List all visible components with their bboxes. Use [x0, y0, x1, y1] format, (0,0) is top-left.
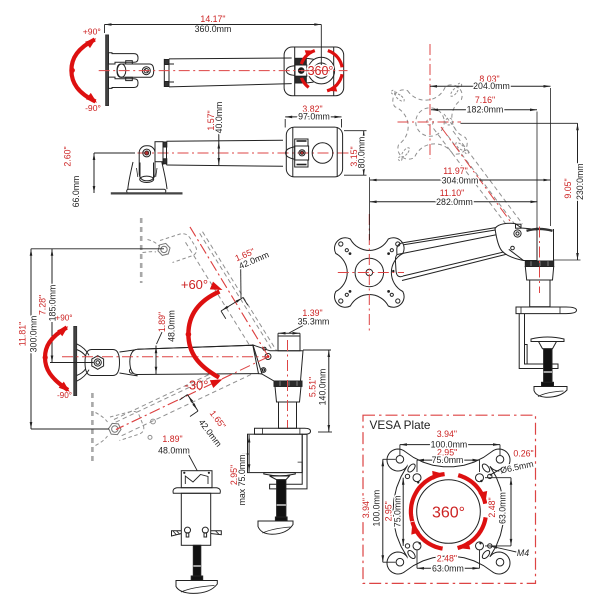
view2 centerline	[98, 152, 355, 154]
blview ghost upper hex bolt	[158, 243, 170, 255]
rightview dim 204mm	[550, 88, 552, 226]
vesa detail inner holes 75/63 pattern	[413, 474, 421, 482]
rightview arm left cap at plate	[397, 243, 404, 255]
view1 dimension 360mm	[104, 25, 106, 34]
svg-text:M4: M4	[517, 548, 529, 558]
view1 centerline	[99, 70, 348, 72]
blview dim 300mm	[31, 428, 109, 430]
view2 arm bullet tip	[286, 147, 295, 159]
rightview dashed arm end bracket	[446, 118, 453, 125]
view1 pivot screw black	[298, 68, 304, 74]
blview ghost upper bracket	[148, 240, 160, 247]
rightview solid arm upper link	[404, 227, 498, 242]
blview ghost arm lower centerline	[116, 357, 268, 430]
svg-text:63.0mm: 63.0mm	[498, 492, 508, 524]
vesa detail center circle	[417, 480, 481, 544]
svg-text:75.0mm: 75.0mm	[392, 495, 402, 527]
blview elbow head	[253, 345, 303, 381]
view1 clamp jaws	[295, 58, 306, 65]
rightview clamp screw	[544, 349, 552, 383]
svg-text:7.16": 7.16"	[475, 95, 495, 105]
svg-text:3.94": 3.94"	[437, 429, 457, 439]
svg-text:48.0mm: 48.0mm	[158, 446, 190, 456]
blview head cap	[278, 336, 300, 351]
blview pole mid block	[275, 386, 301, 402]
blview dim 42mm lower ghost arm	[188, 395, 199, 412]
svg-text:230.0mm: 230.0mm	[575, 163, 585, 200]
rightview dim 230mm	[461, 122, 578, 124]
vesa detail rotation arcs 360	[411, 474, 445, 521]
clamp detail top plate	[255, 428, 311, 434]
blview dim 140mm	[303, 349, 331, 351]
view2 dim 66mm	[94, 152, 135, 154]
clamp detail spine	[270, 434, 307, 489]
svg-text:3.94": 3.94"	[361, 498, 371, 518]
view2 pivot screw red	[299, 150, 305, 156]
vesa detail dim 75mm left	[402, 478, 404, 546]
grommet nut	[191, 576, 203, 580]
view2 connector block	[155, 142, 163, 162]
grommet bowl	[176, 581, 217, 594]
rightview desk clamp top plate	[516, 307, 577, 314]
rightview clamp knob bowl	[534, 387, 567, 398]
svg-text:360°: 360°	[432, 505, 465, 522]
clamp detail nut	[275, 517, 287, 521]
view2 dim 80mm	[344, 130, 367, 132]
rightview clamp screw nut	[542, 382, 554, 386]
clamp detail bowl	[258, 521, 293, 534]
rightview clamp C bracket	[519, 314, 558, 369]
view2 clamp jaws	[295, 139, 308, 146]
svg-text:1.89": 1.89"	[157, 312, 167, 332]
blview wall bracket horns	[77, 344, 89, 356]
svg-text:80.0mm: 80.0mm	[357, 137, 367, 169]
blview dim 35.3mm cap	[278, 332, 300, 334]
view1 pivot screw	[142, 67, 150, 75]
view1 arm bullet tip	[286, 66, 295, 76]
rightview dashed arm centerline	[441, 127, 517, 231]
rightview dashed VESA plate raised position	[391, 83, 469, 161]
svg-text:2.48": 2.48"	[487, 497, 497, 517]
blview dim 185mm	[31, 248, 164, 250]
view2 monitor plate square	[286, 127, 342, 177]
blview arm centerline red	[62, 356, 268, 358]
view1 arm tube	[169, 57, 292, 60]
grommet screw	[193, 545, 201, 576]
blview main beam	[130, 345, 259, 374]
svg-text:2.60": 2.60"	[63, 146, 73, 166]
svg-text:1.89": 1.89"	[162, 434, 182, 444]
rightview solid VESA plate	[335, 238, 405, 308]
rightview pole mid block	[525, 267, 553, 281]
rightview solid arm main beam	[397, 234, 500, 255]
rightview dim 304mm	[369, 177, 371, 240]
grommet flange disc	[173, 488, 220, 494]
svg-text:48.0mm: 48.0mm	[167, 310, 177, 342]
vesa detail border box	[363, 415, 536, 583]
view2 dim 40mm	[218, 130, 220, 165]
svg-text:360.0mm: 360.0mm	[195, 24, 232, 34]
rightview dashed plate crosshair	[429, 44, 431, 159]
grommet side tabs	[172, 531, 182, 536]
view1 knob neck	[306, 57, 313, 60]
blview ghost lower bracket	[96, 413, 108, 423]
view2 base foot	[127, 189, 166, 193]
view2 knob circle	[312, 143, 333, 164]
rightview dim 282mm	[370, 201, 538, 203]
clamp detail body block	[248, 434, 303, 472]
view1 arm end cap	[163, 59, 165, 87]
blview wall plate	[74, 327, 77, 396]
svg-text:63.0mm: 63.0mm	[432, 564, 464, 574]
view2 pivot screw red	[143, 149, 151, 157]
svg-text:+90°: +90°	[55, 314, 72, 323]
view2 ground line	[111, 192, 183, 194]
blview dim 42mm upper ghost arm	[221, 298, 243, 312]
blview forearm link	[120, 350, 138, 376]
blview ghost lower hex bolt	[109, 423, 121, 434]
svg-text:2.48": 2.48"	[437, 554, 457, 564]
view1 top view wall plate	[106, 35, 109, 106]
vesa detail dim 100mm left	[383, 458, 396, 460]
blview pole	[279, 402, 297, 428]
view2 arm tube	[167, 140, 284, 141]
svg-text:75.0mm: 75.0mm	[432, 455, 464, 465]
rightview dashed arm raised	[434, 129, 506, 224]
svg-text:97.0mm: 97.0mm	[298, 112, 330, 122]
svg-text:35.3mm: 35.3mm	[298, 316, 330, 326]
view1 knob circle	[308, 57, 335, 84]
clamp detail screw	[277, 480, 286, 517]
clamp detail pad disc	[264, 473, 296, 476]
rightview solid plate crosshair	[368, 214, 370, 331]
svg-text:0.26": 0.26"	[513, 449, 533, 459]
rightview dim 182mm	[536, 112, 538, 227]
view2 dim 97mm	[284, 119, 286, 128]
svg-text:-90°: -90°	[57, 391, 72, 400]
vesa detail dim 63mm bottom	[416, 550, 418, 568]
svg-text:9.05": 9.05"	[563, 178, 573, 198]
svg-text:-30°: -30°	[185, 378, 209, 393]
blview ghost arm raised 60	[186, 242, 260, 361]
vesa detail lobe holes	[396, 456, 404, 464]
view2 arm left cap	[162, 142, 164, 165]
svg-text:66.0mm: 66.0mm	[71, 176, 81, 208]
view1 swivel arc +90/-90	[71, 40, 95, 102]
svg-text:14.17": 14.17"	[200, 14, 225, 24]
svg-text:+60°: +60°	[181, 277, 208, 292]
blview ghost lower wall plate dashed	[91, 393, 94, 462]
svg-text:7.28": 7.28"	[37, 295, 47, 315]
blview ghost arm lower -30	[119, 365, 272, 438]
blview pole centerline	[287, 340, 289, 428]
blview ghost lower arm pivot circles	[151, 419, 156, 424]
svg-text:300.0mm: 300.0mm	[28, 316, 38, 353]
svg-text:5.51": 5.51"	[307, 377, 317, 397]
view1 clevis ridge ticks	[126, 61, 133, 64]
blview ghost upper wall plate dashed	[140, 218, 143, 283]
grommet keyhole slots	[185, 527, 191, 533]
blview collar dark band	[274, 381, 302, 386]
view1 monitor plate rounded square	[284, 47, 344, 96]
svg-text:282.0mm: 282.0mm	[436, 197, 473, 207]
svg-text:100.0mm: 100.0mm	[372, 490, 382, 527]
vesa detail small holes	[488, 474, 492, 478]
view1 rotation arc 360 top	[301, 51, 315, 65]
view2 base cone	[128, 162, 133, 189]
rightview pole centerline	[539, 227, 541, 294]
vesa detail dim 63mm right	[485, 477, 511, 479]
svg-text:11.81": 11.81"	[18, 322, 28, 346]
blview elbow pivots	[265, 354, 271, 360]
blview ghost arm raised centerline	[190, 227, 268, 356]
svg-text:40.0mm: 40.0mm	[214, 102, 224, 134]
blview swivel arc 90 red	[45, 328, 68, 391]
svg-text:VESA Plate: VESA Plate	[370, 418, 431, 432]
vesa detail slots	[406, 463, 416, 474]
view1 bracket horn bottom	[109, 77, 139, 88]
vesa detail dim 75mm top	[416, 460, 418, 472]
svg-text:182.0mm: 182.0mm	[467, 105, 504, 115]
vesa detail plate outline	[387, 449, 510, 574]
rightview pole collar dark	[525, 261, 553, 267]
blview rotation arc 60-30 red	[188, 292, 219, 378]
svg-text:11.97": 11.97"	[443, 166, 467, 176]
svg-text:140.0mm: 140.0mm	[317, 369, 327, 406]
rightview clamp pad disc	[531, 337, 564, 342]
view1 bracket horn top	[109, 53, 139, 64]
blview dim 48mm arm width	[155, 346, 157, 375]
svg-text:+90°: +90°	[83, 26, 101, 36]
vesa detail dim 100mm top	[399, 445, 401, 455]
svg-text:304.0mm: 304.0mm	[442, 175, 479, 185]
blview wall pivot hex bolt	[92, 356, 104, 370]
view2 pivot head	[139, 146, 155, 181]
blview clevis	[85, 350, 120, 376]
clamp detail dim max75	[248, 435, 250, 472]
rightview head at pole	[495, 223, 537, 260]
svg-text:-90°: -90°	[85, 103, 101, 113]
grommet top box with break line	[181, 471, 212, 488]
view1 clevis barrel	[117, 64, 154, 77]
svg-text:max 75.0mm: max 75.0mm	[237, 455, 247, 506]
blview ghost centerlines overlay	[190, 227, 268, 356]
rightview pole upper	[536, 226, 538, 261]
grommet column	[181, 493, 210, 545]
rightview pole lower	[530, 280, 550, 307]
rightview pole cap top	[527, 229, 553, 231]
svg-text:204.0mm: 204.0mm	[473, 81, 510, 91]
